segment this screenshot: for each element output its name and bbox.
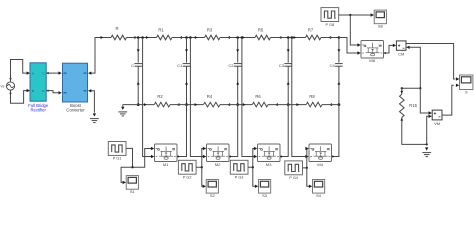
wire top bus segment 5	[271, 37, 306, 39]
wire mid rail to ground G2	[122, 105, 124, 107]
port marker R6 right	[275, 103, 278, 106]
arrow into M8 gate	[357, 43, 360, 46]
svg-text:S2: S2	[210, 193, 216, 198]
pulse generator PG1	[108, 142, 126, 156]
MOSFET block M8	[361, 41, 384, 59]
wire mid rail segment 2	[170, 104, 203, 106]
wire bus to M8 drain	[339, 38, 358, 54]
ground G1 below boost	[93, 113, 96, 116]
svg-text:C2: C2	[228, 63, 234, 68]
arrow into scope S2	[203, 185, 206, 188]
arrow into CM negative	[406, 46, 409, 49]
svg-text:C: C	[131, 63, 134, 68]
resistor R8	[306, 102, 322, 107]
resistor R5	[255, 35, 271, 40]
svg-text:R3: R3	[207, 27, 213, 32]
svg-text:R7: R7	[308, 27, 314, 32]
svg-text:P G1: P G1	[113, 157, 122, 161]
wire node n1 to M1 drain	[143, 38, 152, 157]
port marker R6 left	[243, 103, 246, 106]
wire load top node	[402, 87, 421, 89]
capacitor C2	[237, 38, 239, 63]
svg-text:R8: R8	[309, 94, 315, 99]
svg-text:S3: S3	[262, 193, 268, 198]
svg-text:VM: VM	[434, 121, 440, 126]
boost port tick F	[64, 92, 67, 94]
wire mid rail segment 4	[268, 104, 306, 106]
svg-text:R4: R4	[207, 94, 213, 99]
arrow into M4 drain port	[305, 155, 308, 158]
svg-text:C1: C1	[177, 63, 183, 68]
boost port tick E	[64, 72, 67, 74]
scope S	[460, 75, 473, 90]
junction node n4 drain tap	[291, 36, 294, 39]
source top terminal dot	[10, 78, 12, 80]
MOSFET block M4	[309, 144, 332, 162]
arrow at boost out-	[88, 89, 91, 92]
svg-text:P G8: P G8	[326, 23, 335, 27]
port marker R15 bottom	[400, 118, 403, 121]
wire C4 branch to M4 output	[333, 105, 339, 157]
port marker R5 right	[279, 36, 282, 39]
port marker R4 right	[227, 103, 230, 106]
arrow into M8 drain port	[357, 51, 360, 54]
junction C3-rail	[287, 103, 290, 106]
wire PG4 to scope S4	[307, 168, 310, 186]
wire CM negative to load node	[410, 47, 421, 88]
wire top bus segment 3	[172, 37, 205, 39]
scope S1	[126, 176, 138, 190]
wire node n3 to M3 drain	[242, 38, 254, 157]
svg-text:M3: M3	[266, 162, 272, 167]
arrow into M3 gate	[254, 147, 257, 150]
wire PG8 to M8 gate	[350, 15, 358, 45]
scope S3	[259, 180, 271, 194]
wire CM signal out to scope S	[406, 44, 455, 80]
wire node n2 to M2 drain	[190, 38, 203, 157]
arrow into scope S input 1	[456, 77, 459, 80]
port marker R8 left	[296, 103, 299, 106]
wire C1 branch to M1 output	[178, 105, 186, 157]
resistor R2	[154, 102, 170, 107]
capacitor C3	[287, 38, 289, 63]
arrow into M1 gate	[151, 147, 154, 150]
boost port tick out-	[84, 90, 87, 92]
svg-text:Rectifier: Rectifier	[31, 108, 47, 113]
pulse generator PG2	[178, 160, 196, 174]
port marker R15 top	[400, 91, 403, 94]
pulse generator PG8	[321, 8, 339, 22]
full bridge rectifier U1 block	[30, 63, 46, 101]
junction node n3 drain tap	[241, 36, 244, 39]
junction R15 top	[401, 87, 403, 89]
junction C-rail	[137, 103, 140, 106]
svg-text:B: B	[32, 89, 34, 93]
junction node n5 cap tap	[338, 36, 341, 39]
pulse generator PG3	[230, 160, 248, 174]
port marker R right	[133, 36, 136, 39]
wire top bus segment 2	[127, 37, 157, 39]
junction PG4 net	[306, 167, 308, 169]
wire mid rail segment 5	[322, 104, 339, 106]
svg-text:S8: S8	[378, 24, 384, 29]
arrow into boost port E	[58, 71, 61, 74]
MOSFET block M2	[207, 144, 230, 162]
capacitor C4	[338, 38, 340, 63]
svg-text:R1: R1	[158, 27, 164, 32]
port marker R7 right	[328, 36, 331, 39]
arrow into CM positive	[393, 44, 396, 47]
port marker R3 left	[195, 36, 198, 39]
junction node n1 cap tap	[137, 36, 140, 39]
wire VM output to scope S	[442, 85, 454, 115]
wire PG4 output net	[303, 149, 307, 168]
arrow into scope S4	[309, 185, 312, 188]
junction PG1 net	[131, 166, 133, 168]
port marker R1 right	[179, 36, 182, 39]
svg-text:R6: R6	[255, 94, 261, 99]
svg-text:S1: S1	[130, 189, 136, 194]
arrow into M2 drain port	[203, 155, 206, 158]
svg-text:CM: CM	[398, 51, 404, 56]
arrow into M1 drain port	[151, 155, 154, 158]
arrow into M2 gate	[203, 147, 206, 150]
port marker R4 left	[195, 103, 198, 106]
junction node n2 drain tap	[189, 36, 192, 39]
ground G3 load return	[425, 147, 428, 150]
svg-text:M8: M8	[369, 58, 375, 63]
svg-text:R: R	[115, 26, 118, 31]
port marker R7 left	[294, 36, 297, 39]
svg-text:C4: C4	[330, 63, 336, 68]
wire PG3 output net	[248, 149, 254, 168]
wire C3 branch to M3 output	[281, 105, 288, 157]
junction node n3 cap tap	[236, 36, 239, 39]
wire boost out+ to top bus	[91, 38, 100, 74]
wire C2 branch to M2 output	[230, 105, 238, 157]
svg-text:S4: S4	[316, 193, 322, 198]
wire mid rail segment 1	[123, 104, 155, 106]
resistor R1	[157, 35, 173, 40]
wire PG3 to scope S3	[253, 167, 256, 186]
wire top bus segment 6	[321, 37, 347, 39]
pulse generator PG4	[285, 161, 303, 175]
wire PG8 output to scope S8	[339, 14, 371, 16]
port marker R2 left	[144, 103, 147, 106]
junction node n1 drain tap	[141, 36, 144, 39]
boost converter U2 block	[63, 63, 88, 102]
arrow into scope S input 2	[456, 84, 459, 87]
junction C4-rail	[338, 103, 341, 106]
svg-text:P G3: P G3	[235, 176, 244, 180]
arrow into VM negative	[429, 115, 432, 118]
AC voltage source Vs	[6, 82, 14, 90]
svg-text:A: A	[32, 72, 34, 76]
wire M8 output to CM	[384, 52, 386, 54]
port marker R2 right	[177, 103, 180, 106]
wire PG2 to scope S2	[202, 167, 203, 186]
wire PG1 to scope S1	[121, 167, 132, 182]
wire top bus segment 1	[95, 37, 111, 39]
arrow into VM positive	[429, 111, 432, 114]
arrow into scope S8	[371, 13, 374, 16]
arrow into boost port F	[58, 91, 61, 94]
wire source bottom to rectifier B	[11, 90, 28, 103]
port marker R5 left	[242, 36, 245, 39]
port marker R8 right	[329, 103, 332, 106]
svg-text:R5: R5	[258, 27, 264, 32]
MOSFET block M1	[155, 144, 178, 162]
svg-text:D: D	[42, 89, 44, 93]
wire rectifier D to boost F	[47, 90, 49, 92]
junction PG2 net	[201, 166, 203, 168]
junction PG3 net	[252, 166, 254, 168]
MOSFET block M3	[258, 144, 281, 162]
svg-text:P G4: P G4	[289, 176, 298, 180]
arrow into scope S3	[255, 185, 258, 188]
wire R15 bottom to ground node	[402, 121, 427, 144]
resistor R7	[306, 35, 322, 40]
ground G2 rail left end	[121, 107, 124, 110]
wire node n4 to M4 drain	[292, 38, 306, 157]
scope S8	[374, 10, 386, 24]
svg-text:M2: M2	[215, 162, 221, 167]
current measurement CM block	[396, 41, 406, 50]
wire load node to VM positive	[420, 88, 428, 113]
wire PG2 output net	[196, 149, 203, 168]
wire mid rail segment 3	[220, 104, 252, 106]
resistor R3	[205, 35, 221, 40]
wire top bus segment 4	[220, 37, 255, 39]
arrow into rectifier port A	[27, 71, 30, 74]
arrow into rectifier port B	[27, 89, 30, 92]
wire source top to rectifier A	[11, 60, 28, 82]
arrow into scope S1	[123, 181, 126, 184]
junction node n4 cap tap	[287, 36, 290, 39]
junction ground node	[426, 143, 428, 145]
resistor R15	[401, 88, 403, 94]
wire PG1 output net	[126, 148, 151, 167]
boost port tick out+	[84, 72, 87, 74]
port marker R3 right	[227, 36, 230, 39]
wire boost out- to ground	[91, 91, 94, 113]
svg-text:M4: M4	[317, 162, 323, 167]
port marker R1 left	[146, 36, 149, 39]
svg-text:R2: R2	[157, 94, 163, 99]
arrow at boost out+	[88, 71, 91, 74]
svg-text:P G2: P G2	[183, 176, 192, 180]
capacitor C	[137, 38, 139, 63]
junction load top node	[419, 87, 421, 89]
junction C2-rail	[236, 103, 239, 106]
svg-text:C3: C3	[279, 63, 285, 68]
capacitor C1	[186, 38, 188, 63]
resistor R	[111, 35, 127, 40]
svg-text:S: S	[465, 90, 468, 95]
junction C1-rail	[185, 103, 188, 106]
wire rectifier C to boost E	[47, 72, 49, 74]
voltage measurement VM block	[432, 110, 442, 120]
junction PG8 net	[349, 14, 351, 16]
scope S2	[206, 180, 218, 194]
port marker R left	[101, 36, 104, 39]
resistor R6	[252, 102, 268, 107]
wire ground node to VM negative	[427, 116, 429, 144]
svg-text:Vs: Vs	[0, 84, 4, 88]
svg-text:Converter: Converter	[66, 108, 85, 113]
arrow into M3 drain port	[254, 155, 257, 158]
svg-text:C: C	[42, 72, 44, 76]
resistor R4	[203, 102, 220, 107]
svg-text:M1: M1	[163, 162, 169, 167]
junction node n2 cap tap	[185, 36, 188, 39]
svg-text:R15: R15	[409, 103, 417, 108]
source bottom terminal dot	[10, 92, 12, 94]
scope S4	[313, 180, 325, 194]
arrow into M4 gate	[305, 147, 308, 150]
